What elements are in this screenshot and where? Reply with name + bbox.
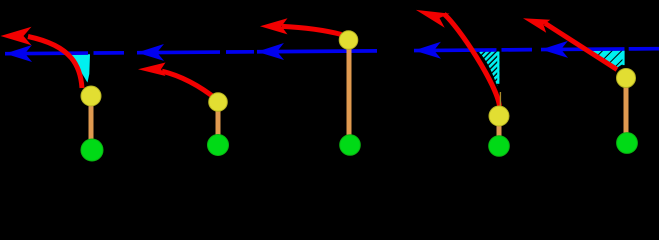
yellow ball figure 2 — [209, 93, 228, 112]
blue arrowhead 5 — [541, 41, 568, 58]
orange rod figure 4 — [497, 120, 502, 140]
red trajectory arrow figure 4 — [444, 14, 500, 106]
orange rod figure 2 — [216, 106, 221, 138]
green pivot ball figure 1 — [81, 139, 103, 161]
blue arrow 5 body — [541, 47, 625, 51]
green pivot ball figure 5 — [617, 133, 638, 154]
blue dash — [226, 50, 254, 54]
cyan hatched drop region figure 5 — [588, 51, 625, 68]
yellow ball figure 1 — [81, 86, 101, 106]
thin rod line above ball figure 4 — [500, 92, 501, 107]
yellow ball figure 3 — [339, 31, 358, 50]
green pivot ball figure 3 — [340, 135, 361, 156]
blue arrowhead 2 — [137, 44, 164, 61]
yellow ball figure 5 — [617, 69, 636, 88]
blue arrowhead 3 — [257, 43, 284, 60]
blue dash to edge — [629, 47, 659, 51]
blue arrow 4 body — [414, 48, 497, 52]
red trajectory arrow figure 3 — [282, 26, 342, 34]
orange rod figure 3 — [347, 44, 352, 138]
cyan solid drop region figure 1 — [68, 54, 90, 82]
yellow ball figure 4 — [489, 106, 509, 126]
green pivot ball figure 4 — [489, 136, 510, 157]
dashed blue velocity line with 5 left arrowheads — [5, 40, 659, 62]
cyan hatched drop region figure 4 — [478, 52, 499, 87]
orange rod figure 1 — [89, 100, 94, 143]
blue arrowhead 4 — [414, 42, 441, 59]
cyan right edge line figure 5 — [622, 51, 624, 66]
blue arrow 1 body — [5, 51, 88, 55]
blue dash — [93, 51, 124, 55]
blue arrow 3 body — [257, 49, 377, 54]
blue arrowhead 1 — [5, 45, 32, 62]
cyan right edge line figure 4 — [497, 52, 499, 84]
blue arrow 2 body — [137, 50, 220, 54]
blue dash — [501, 48, 532, 52]
orange rod figure 5 — [624, 82, 629, 135]
green pivot ball figure 2 — [208, 135, 229, 156]
red trajectory arrow figure 2 — [162, 71, 218, 100]
red trajectory arrow figure 5 — [545, 23, 617, 69]
red trajectory arrow figure 1 — [28, 37, 82, 89]
